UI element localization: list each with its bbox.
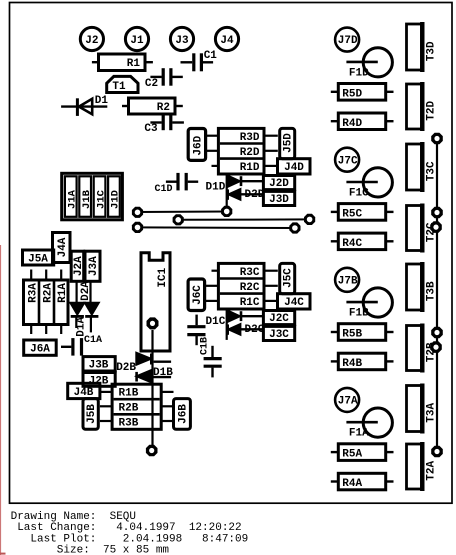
- pad J1: [125, 27, 148, 50]
- wire leads resistor array B right: [161, 392, 173, 421]
- via pad C: [173, 214, 184, 225]
- pad J4: [215, 27, 238, 50]
- wire net middle 3: [138, 226, 295, 229]
- svg-text:J7B: J7B: [338, 275, 358, 287]
- diode D1A: [71, 303, 84, 316]
- via pad right T3C-1: [431, 207, 443, 219]
- svg-text:J4A: J4A: [57, 237, 69, 257]
- svg-text:F1A: F1A: [349, 428, 369, 440]
- wires below diodes A: [76, 316, 91, 332]
- svg-text:R2A: R2A: [42, 283, 54, 303]
- connector J6A: [24, 340, 57, 356]
- svg-text:C1D: C1D: [155, 184, 173, 195]
- svg-text:T3B: T3B: [425, 281, 437, 301]
- svg-text:J4: J4: [220, 35, 234, 47]
- resistor R2: [122, 98, 183, 114]
- fuse F1B: [346, 288, 392, 320]
- svg-text:Size: 75 x 85 mm: Size: 75 x 85 mm: [11, 545, 170, 555]
- label C1B: [200, 337, 211, 355]
- wire leads resistor array B left: [100, 392, 112, 421]
- fuse F1C: [346, 168, 392, 200]
- svg-text:Last Plot: 2.04.1998 8:47: Last Plot: 2.04.1998 8:47:09: [11, 533, 249, 545]
- label D1C: [206, 316, 226, 328]
- svg-text:J1C: J1C: [95, 189, 107, 209]
- svg-text:J3B: J3B: [89, 360, 109, 372]
- diode D2A: [85, 303, 98, 316]
- pad J3: [170, 27, 193, 50]
- svg-text:J5A: J5A: [28, 253, 48, 265]
- wire diodes D to pad: [226, 174, 228, 211]
- via pad right T2C-2: [430, 221, 442, 233]
- label D2B: [116, 362, 136, 374]
- svg-text:R4A: R4A: [342, 478, 362, 490]
- diode D2B: [137, 353, 172, 365]
- svg-text:J1A: J1A: [67, 189, 79, 209]
- svg-text:J3A: J3A: [88, 256, 100, 276]
- svg-text:D1: D1: [95, 95, 109, 107]
- connector J3B: [83, 357, 115, 372]
- title block text: [11, 511, 249, 555]
- transistor T3B: [407, 262, 438, 312]
- resistor R5D: [331, 84, 394, 101]
- connector J2C: [263, 311, 294, 326]
- wire leads resistor array A top: [31, 270, 61, 279]
- svg-text:J3: J3: [175, 35, 189, 47]
- transistor T2B: [407, 324, 438, 373]
- svg-text:F1B: F1B: [349, 308, 369, 320]
- svg-text:R3C: R3C: [240, 267, 260, 279]
- resistor array R3D R2D R1D: [218, 128, 264, 174]
- svg-text:R4D: R4D: [342, 118, 362, 130]
- svg-text:J1B: J1B: [81, 189, 93, 209]
- svg-text:R5A: R5A: [342, 449, 362, 461]
- pad J7D: [335, 28, 359, 52]
- connector J5A: [23, 250, 54, 265]
- svg-text:J2C: J2C: [269, 313, 289, 325]
- svg-text:J6A: J6A: [30, 344, 50, 356]
- pad J7A: [335, 388, 359, 412]
- via pad B: [132, 222, 143, 233]
- via pad right T2D: [431, 133, 443, 145]
- wire diodes C down: [226, 308, 228, 340]
- label D1A: [76, 317, 88, 337]
- capacitor C1B: [187, 315, 205, 346]
- via pad F: [304, 214, 315, 225]
- wire IC1 pad down: [151, 330, 153, 353]
- capacitor C2: [145, 68, 183, 90]
- via pad A: [132, 207, 143, 218]
- svg-text:J2D: J2D: [269, 178, 289, 190]
- connector block J1A J1B J1C J1D: [62, 173, 123, 220]
- capacitor C1A: [61, 335, 102, 356]
- svg-text:C1A: C1A: [84, 335, 102, 346]
- resistor R1: [92, 54, 153, 71]
- svg-text:R1D: R1D: [240, 162, 260, 174]
- svg-text:D2B: D2B: [116, 362, 136, 374]
- fuse F1A: [346, 408, 392, 440]
- svg-text:F1D: F1D: [349, 67, 369, 79]
- svg-text:R1C: R1C: [240, 297, 260, 309]
- resistor R5C: [331, 204, 394, 221]
- wires J6C to resistor array: [205, 271, 219, 301]
- label D2D: [245, 189, 265, 201]
- label D2C: [245, 324, 265, 336]
- svg-text:R1: R1: [127, 58, 141, 70]
- svg-text:R2B: R2B: [119, 403, 139, 415]
- pad inside IC1: [147, 317, 159, 329]
- svg-text:J1: J1: [130, 35, 144, 47]
- svg-text:J7C: J7C: [338, 155, 358, 167]
- pad below B: [146, 445, 158, 457]
- diode D2C: [228, 324, 264, 334]
- svg-text:R5D: R5D: [342, 88, 362, 100]
- capacitor C1: [181, 50, 218, 72]
- wire net middle 1: [138, 211, 227, 214]
- resistor R4A: [331, 473, 394, 490]
- svg-text:T2D: T2D: [425, 101, 437, 121]
- pad J7C: [335, 148, 359, 172]
- connector J3D: [263, 191, 294, 206]
- fuse F1D: [346, 48, 392, 80]
- svg-text:J4C: J4C: [284, 297, 304, 309]
- svg-text:J5C: J5C: [283, 268, 295, 288]
- svg-text:R3D: R3D: [240, 132, 260, 144]
- label D1D: [206, 182, 226, 194]
- connector J2D: [263, 176, 294, 191]
- svg-text:J4D: J4D: [284, 162, 304, 174]
- svg-text:T3A: T3A: [425, 403, 437, 423]
- svg-text:J7D: J7D: [338, 35, 358, 47]
- diode D1D: [229, 176, 264, 186]
- connector J4B: [68, 383, 100, 399]
- diode D2D: [228, 189, 264, 199]
- resistor R5A: [331, 444, 394, 461]
- transistor T1: [107, 76, 138, 93]
- svg-text:T3D: T3D: [425, 41, 437, 61]
- svg-text:D2A: D2A: [80, 281, 92, 301]
- via pad right T3B-1: [431, 327, 443, 339]
- svg-text:R2: R2: [157, 102, 170, 114]
- svg-text:R2C: R2C: [240, 282, 260, 294]
- svg-text:D1B: D1B: [153, 367, 173, 379]
- resistor R5B: [331, 324, 394, 341]
- via pad E: [289, 222, 300, 233]
- transistor T2C: [407, 204, 438, 253]
- diode D1: [61, 95, 108, 116]
- resistor R4C: [331, 233, 394, 250]
- svg-text:J5B: J5B: [86, 404, 98, 424]
- connector J3A: [85, 251, 100, 281]
- resistor array R3C R2C R1C: [218, 263, 264, 309]
- diode D1B: [137, 370, 172, 382]
- svg-text:J7A: J7A: [338, 396, 358, 408]
- connector J4A: [53, 233, 71, 263]
- connector J5B: [83, 399, 98, 430]
- red margin line left edge: [0, 245, 6, 555]
- diode D1C: [229, 311, 264, 321]
- label D1B: [153, 367, 173, 379]
- svg-text:C2: C2: [145, 78, 158, 90]
- svg-text:C1B: C1B: [200, 337, 211, 355]
- svg-text:T1: T1: [112, 81, 126, 93]
- connector J4C: [278, 294, 311, 309]
- svg-text:Last Change: 4.04.1997 12:2: Last Change: 4.04.1997 12:20:22: [11, 522, 242, 534]
- svg-text:J3C: J3C: [269, 329, 289, 341]
- capacitor C1C: [204, 346, 222, 378]
- connector J4D: [278, 159, 311, 174]
- via pad right T2A: [431, 446, 443, 458]
- svg-text:J3D: J3D: [269, 194, 289, 206]
- svg-text:R1B: R1B: [119, 388, 139, 400]
- svg-text:F1C: F1C: [349, 188, 369, 200]
- svg-text:C1: C1: [204, 50, 218, 62]
- svg-text:R1A: R1A: [57, 283, 69, 303]
- connector J2A: [71, 251, 85, 281]
- wire leads resistor array C right: [264, 271, 278, 301]
- svg-text:J6C: J6C: [192, 285, 204, 305]
- wire leads resistor array A bottom: [31, 325, 61, 334]
- wires J6D to resistor array: [206, 136, 219, 166]
- svg-text:C3: C3: [144, 123, 158, 135]
- via pad D: [221, 206, 232, 217]
- transistor T3C: [407, 142, 438, 192]
- svg-text:R4B: R4B: [342, 358, 362, 370]
- connector J3C: [263, 326, 294, 341]
- svg-text:D1A: D1A: [76, 317, 88, 337]
- svg-text:R3B: R3B: [119, 418, 139, 430]
- transistor T3D: [407, 22, 438, 72]
- resistor R4D: [331, 113, 394, 130]
- svg-text:R4C: R4C: [342, 238, 362, 250]
- svg-text:J2: J2: [85, 35, 98, 47]
- wire right net vertical: [436, 139, 438, 452]
- transistor T2D: [407, 82, 438, 131]
- transistor T2A: [407, 442, 438, 491]
- svg-text:IC1: IC1: [157, 267, 169, 287]
- svg-text:T3C: T3C: [425, 161, 437, 181]
- connector J5D: [280, 128, 295, 158]
- svg-text:J5D: J5D: [283, 133, 295, 153]
- svg-text:R5B: R5B: [342, 329, 362, 341]
- connector J6D: [188, 129, 205, 161]
- capacitor C1D: [155, 173, 199, 195]
- connector J6B: [174, 399, 191, 430]
- svg-text:R2D: R2D: [240, 147, 260, 159]
- pad J7B: [335, 268, 359, 292]
- svg-text:J6B: J6B: [178, 404, 190, 424]
- svg-text:J6D: J6D: [193, 135, 205, 155]
- capacitor C3: [144, 115, 184, 135]
- connector J6C: [188, 279, 205, 311]
- wire IC1 to pad B vertical: [151, 351, 153, 451]
- resistor array R3A R2A R1A: [24, 280, 69, 325]
- transistor T3A: [407, 384, 438, 434]
- via pad right T2B-2: [430, 341, 442, 353]
- svg-text:D1D: D1D: [206, 182, 226, 194]
- connector J2B: [83, 373, 115, 388]
- IC IC1: [141, 253, 170, 351]
- resistor array R1B R2B R3B: [112, 384, 161, 430]
- svg-text:T2A: T2A: [425, 461, 437, 481]
- pad J2: [80, 27, 103, 50]
- wire net middle 2: [178, 218, 309, 220]
- svg-text:J2A: J2A: [73, 256, 85, 276]
- label D2A: [80, 281, 92, 301]
- wire leads resistor array D right: [264, 136, 278, 166]
- svg-text:D1C: D1C: [206, 316, 226, 328]
- resistor R4B: [331, 353, 394, 370]
- svg-text:R5C: R5C: [342, 208, 362, 220]
- svg-text:J1D: J1D: [110, 190, 122, 209]
- svg-text:R3A: R3A: [27, 283, 39, 303]
- wire J2A J3A to diodes A: [77, 281, 91, 303]
- connector J5C: [280, 263, 295, 293]
